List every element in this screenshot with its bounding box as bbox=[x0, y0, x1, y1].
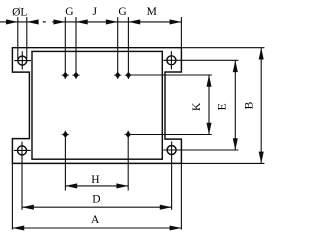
wire E top extension through TR hole bbox=[163, 59, 238, 61]
arrow B bottom bbox=[259, 152, 264, 164]
hole TR crosshair vertical bbox=[170, 51, 172, 69]
pin P5 lead bbox=[64, 131, 66, 191]
dimension line chain diameter-L G J G M bbox=[0, 21, 181, 23]
dimension line H bbox=[65, 185, 128, 187]
arrow D right bbox=[160, 205, 172, 210]
wire diameter-L right extension bbox=[26, 17, 28, 58]
arrow diameter-L right bbox=[27, 19, 39, 24]
arrow A left bbox=[12, 225, 24, 230]
dimension line B bbox=[260, 48, 262, 164]
wire M right extension bbox=[180, 17, 182, 48]
svg-text:G: G bbox=[65, 6, 73, 18]
mounting hole top-left bbox=[18, 56, 27, 65]
arrow J right and G2 left bbox=[106, 19, 118, 24]
arrow D left bbox=[22, 205, 34, 210]
arrow K bottom bbox=[206, 123, 211, 135]
wire B top extension bbox=[181, 47, 264, 49]
dimension line A bbox=[12, 227, 181, 229]
body outline with corner flanges bbox=[12, 48, 181, 164]
wire hole BL vertical arm and D extension bbox=[21, 142, 23, 210]
wire A left extension bbox=[11, 163, 13, 229]
arrow G2 right and M left bbox=[128, 19, 140, 24]
pin P3 diamond bbox=[114, 72, 122, 79]
arrow diameter-L left bbox=[6, 19, 18, 24]
mounting hole bottom-right bbox=[167, 146, 176, 155]
hole TL crosshair bbox=[14, 51, 31, 69]
dimension line D bbox=[22, 206, 172, 208]
mounting hole top-right bbox=[167, 56, 176, 65]
pin P1 diamond bbox=[62, 72, 70, 79]
arrow K top bbox=[206, 75, 211, 87]
pin P6 lead bbox=[127, 131, 129, 191]
arrow J left and G1 right bbox=[76, 19, 88, 24]
wire E bottom extension through BR hole bbox=[163, 149, 238, 151]
svg-text:J: J bbox=[93, 6, 98, 18]
arrow G1 left bbox=[54, 19, 66, 24]
svg-text:B: B bbox=[244, 101, 256, 109]
svg-text:E: E bbox=[216, 103, 228, 110]
pin P4 diamond bbox=[125, 72, 133, 79]
arrow E bottom bbox=[233, 138, 238, 150]
wire A right extension bbox=[180, 163, 182, 229]
wire hole BR vertical arm and D extension bbox=[171, 141, 173, 209]
pin P6 diamond bbox=[124, 131, 132, 138]
arrow H right bbox=[116, 183, 128, 188]
svg-text:H: H bbox=[91, 174, 99, 186]
mounting hole bottom-left bbox=[18, 146, 27, 155]
arrow M right bbox=[170, 19, 182, 24]
pin P5 diamond bbox=[62, 131, 70, 138]
svg-text:ØL: ØL bbox=[12, 6, 27, 18]
arrow E top bbox=[233, 60, 238, 72]
wire B bottom extension bbox=[181, 162, 264, 164]
pin P4 lead bbox=[127, 17, 129, 79]
arrow H left bbox=[65, 183, 77, 188]
arrow A right bbox=[170, 225, 182, 230]
hole BL crosshair horizontal bbox=[14, 149, 31, 151]
wire K bottom extension bbox=[131, 134, 212, 136]
inner body rectangle bbox=[32, 51, 162, 159]
svg-text:G: G bbox=[118, 6, 126, 18]
arrow B top bbox=[259, 48, 264, 60]
pin P2 lead bbox=[75, 17, 77, 79]
dimension line E bbox=[234, 60, 236, 150]
svg-text:M: M bbox=[147, 6, 157, 18]
wire diameter-L left extension bbox=[17, 17, 19, 58]
pin P2 diamond bbox=[72, 72, 80, 79]
svg-text:K: K bbox=[191, 102, 203, 111]
pin P1 lead bbox=[64, 17, 66, 79]
pin P3 lead bbox=[117, 17, 119, 79]
svg-text:D: D bbox=[92, 194, 100, 206]
dimension line K bbox=[208, 75, 210, 135]
svg-text:A: A bbox=[91, 214, 100, 226]
wire K top extension bbox=[131, 74, 212, 76]
